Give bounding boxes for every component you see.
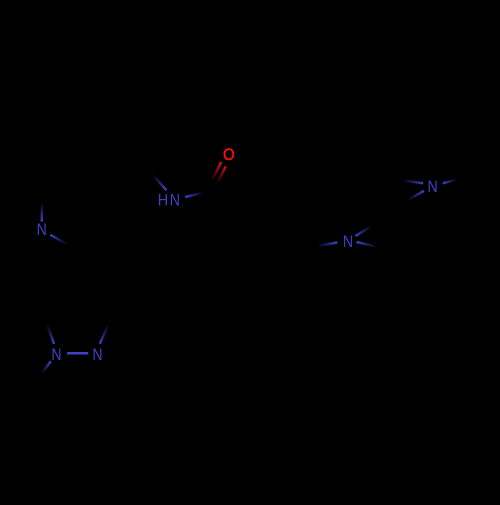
bond CH2 to amide N xyxy=(150,172,167,190)
right lower N bond down-right xyxy=(357,242,388,249)
pyrazole N1 methyl xyxy=(37,361,51,379)
right upper N bond up-left xyxy=(395,179,424,183)
pyrazole N1 to C5 xyxy=(45,319,54,344)
svg-text:N: N xyxy=(37,221,47,239)
bond amide N to carbonyl C xyxy=(185,191,210,197)
bond pyridine N up xyxy=(41,195,44,222)
carbonyl double bond C=O line 1 xyxy=(207,162,221,190)
svg-text:N: N xyxy=(51,346,61,364)
svg-text:H: H xyxy=(158,192,168,210)
bond pyridine N down-right xyxy=(50,235,72,247)
pyrazole N-N bond xyxy=(67,352,88,355)
right lower N bond up-right xyxy=(356,222,379,236)
svg-text:N: N xyxy=(343,233,353,251)
svg-text:O: O xyxy=(223,146,235,164)
right upper N methyl xyxy=(443,178,463,183)
carbonyl double bond C=O line 2 xyxy=(213,166,226,192)
right lower N bond left xyxy=(305,243,337,249)
right upper N bond down-left xyxy=(401,191,424,204)
svg-text:N: N xyxy=(92,346,102,364)
pyrazole N2 to C3 xyxy=(100,319,111,344)
svg-text:N: N xyxy=(170,192,180,210)
svg-text:N: N xyxy=(428,178,438,196)
